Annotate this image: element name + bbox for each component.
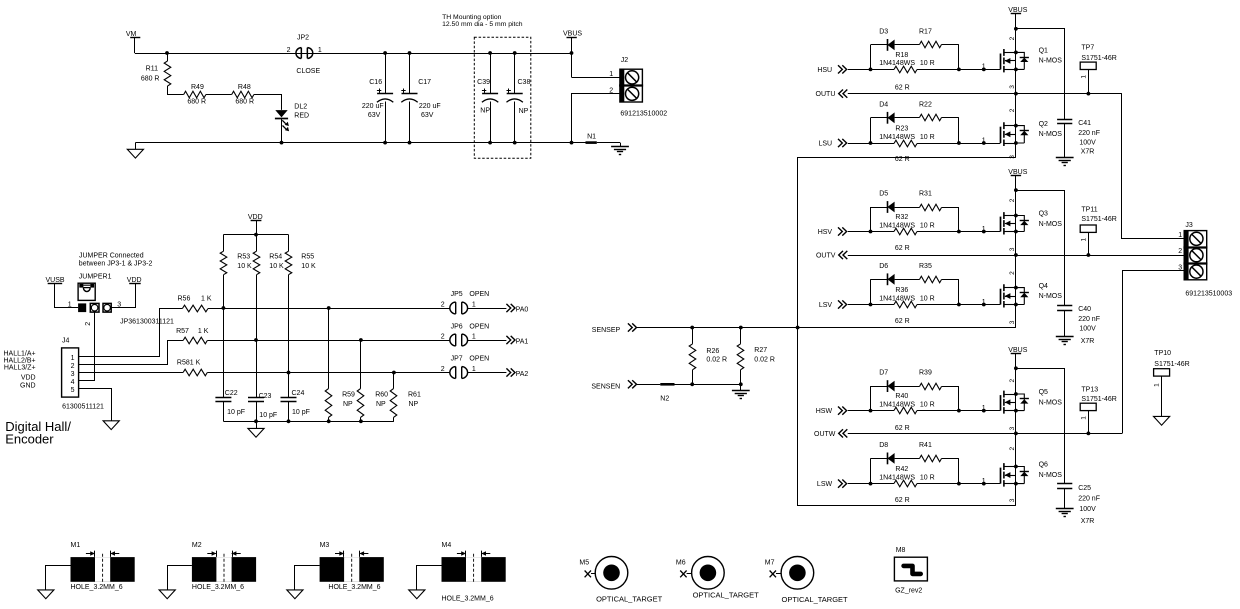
logo M8 glyph bbox=[904, 566, 921, 574]
svg-text:10 R: 10 R bbox=[920, 474, 935, 481]
sheet pin LSV chevron bbox=[838, 300, 847, 308]
svg-text:3: 3 bbox=[1009, 426, 1016, 430]
junction gate R36 bbox=[982, 303, 986, 307]
mounting hole M2 dimension arrows bbox=[207, 553, 216, 555]
svg-text:2: 2 bbox=[1009, 198, 1016, 202]
svg-text:JP6: JP6 bbox=[451, 324, 463, 331]
junction C39 top bbox=[488, 51, 492, 55]
junction gnd bus C23 bbox=[254, 419, 258, 423]
ground J4 bbox=[103, 421, 119, 430]
wire SENSEN row bbox=[637, 384, 661, 386]
svg-text:1: 1 bbox=[1081, 75, 1088, 79]
svg-text:10 R: 10 R bbox=[920, 60, 935, 67]
svg-text:R57: R57 bbox=[176, 328, 189, 335]
junction C16 top bbox=[383, 51, 387, 55]
svg-text:2: 2 bbox=[85, 322, 92, 326]
jumper JUMPER1 cap bbox=[78, 283, 95, 300]
svg-text:M1: M1 bbox=[71, 542, 81, 549]
resistor R31 bbox=[895, 207, 920, 209]
junction VBUS node W bbox=[1014, 366, 1018, 370]
junction D4 right bbox=[957, 141, 961, 145]
wire TP10 to ground bbox=[1161, 376, 1163, 416]
svg-text:VDD: VDD bbox=[248, 214, 263, 221]
svg-text:1: 1 bbox=[472, 301, 476, 308]
svg-text:Q4: Q4 bbox=[1039, 283, 1048, 290]
junction gnd bus R59 bbox=[327, 419, 331, 423]
transistor Q6 drain lead bbox=[1004, 466, 1016, 468]
svg-text:LSU: LSU bbox=[818, 140, 832, 147]
svg-text:10 R: 10 R bbox=[920, 134, 935, 141]
resistor R60 bbox=[360, 340, 362, 389]
svg-text:R56: R56 bbox=[178, 296, 191, 303]
capacitor C16 bbox=[385, 53, 387, 94]
svg-text:OUTU: OUTU bbox=[816, 91, 836, 98]
transistor Q1 source junction bbox=[1014, 68, 1018, 72]
wire TP7 to OUTU bbox=[1088, 70, 1090, 94]
wire branch left D4 bbox=[870, 118, 872, 143]
svg-text:R48: R48 bbox=[238, 84, 251, 91]
mounting hole M4 dimension arrows bbox=[457, 553, 466, 555]
svg-text:D3: D3 bbox=[879, 28, 888, 35]
junction PA0 R59 bbox=[327, 306, 331, 310]
svg-text:R31: R31 bbox=[919, 191, 932, 198]
svg-text:N1: N1 bbox=[587, 134, 596, 141]
ground M1 bbox=[38, 590, 54, 599]
resistor R57 bbox=[183, 337, 207, 344]
test point TP11 bbox=[1080, 225, 1096, 232]
transistor Q3 gate bar bbox=[1000, 217, 1002, 232]
wire VDD bus bbox=[223, 234, 288, 236]
resistor R56 bbox=[182, 305, 208, 312]
optical target M5 rings bbox=[595, 557, 628, 590]
resistor R17 bbox=[895, 44, 920, 46]
wire branch right D7 bbox=[958, 386, 960, 411]
wire branch right D6 bbox=[958, 279, 960, 304]
svg-text:TP11: TP11 bbox=[1081, 206, 1097, 213]
svg-text:R581 K: R581 K bbox=[177, 360, 201, 367]
junction DL2 bottom bbox=[280, 141, 284, 145]
svg-text:J3: J3 bbox=[1185, 222, 1193, 229]
ground C40 bbox=[1056, 336, 1074, 338]
wire branch right D4 bbox=[958, 118, 960, 143]
transistor Q1 channel bbox=[1003, 49, 1005, 72]
ground M3 bbox=[287, 590, 303, 599]
svg-text:D4: D4 bbox=[879, 101, 888, 108]
transistor Q1 source lead bbox=[1004, 69, 1016, 71]
svg-text:1N4148WS: 1N4148WS bbox=[879, 295, 915, 302]
svg-text:X7R: X7R bbox=[1081, 149, 1095, 156]
optical target M7 pin bbox=[770, 571, 776, 578]
svg-text:C39: C39 bbox=[477, 79, 490, 86]
svg-text:R59: R59 bbox=[342, 392, 355, 399]
junction D7 left bbox=[869, 409, 873, 413]
junction OUTV source bbox=[1014, 253, 1018, 257]
optical target M5 pin bbox=[585, 571, 591, 578]
resistor R40 bbox=[871, 410, 895, 412]
junction VBUS node U bbox=[1014, 27, 1018, 31]
transistor Q3 bulk arrow bbox=[1005, 223, 1016, 225]
svg-text:OPTICAL_TARGET: OPTICAL_TARGET bbox=[596, 595, 663, 604]
wire JUMPER1 pin2 to J4 pin4 bbox=[79, 312, 95, 380]
test point TP13 bbox=[1080, 403, 1096, 410]
svg-text:62 R: 62 R bbox=[895, 425, 910, 432]
junction OUTU testpoint bbox=[1087, 92, 1091, 96]
mounting hole M4 centerline bbox=[473, 554, 475, 584]
svg-text:2: 2 bbox=[1009, 447, 1016, 451]
transistor Q4 body diode bbox=[1016, 288, 1024, 305]
svg-text:3: 3 bbox=[1178, 265, 1182, 272]
transistor Q1 gate bar bbox=[1000, 54, 1002, 70]
svg-text:JUMPER Connected: JUMPER Connected bbox=[79, 253, 144, 260]
ground C25 bbox=[1056, 508, 1074, 510]
capacitor C17 bbox=[409, 53, 411, 94]
svg-text:VBUS: VBUS bbox=[563, 31, 582, 38]
wire D4 input bbox=[848, 143, 871, 145]
mounting hole M1 centerline bbox=[102, 554, 104, 584]
transistor Q5 source lead bbox=[1004, 410, 1016, 412]
svg-text:3: 3 bbox=[117, 302, 121, 309]
svg-text:NP: NP bbox=[519, 108, 529, 115]
svg-text:J4: J4 bbox=[62, 338, 70, 345]
ground filter bus bbox=[256, 421, 258, 428]
mounting hole M4 pad bbox=[442, 557, 506, 582]
svg-text:1N4148WS: 1N4148WS bbox=[879, 222, 915, 229]
svg-text:S1751-46R: S1751-46R bbox=[1081, 55, 1116, 62]
wire D5 input bbox=[848, 231, 871, 233]
transistor Q4 channel bbox=[1003, 284, 1005, 307]
transistor Q6 gate bar bbox=[1000, 468, 1002, 484]
transistor Q2 source junction bbox=[1014, 141, 1018, 145]
jumper JP5 bbox=[450, 302, 456, 314]
svg-text:OPEN: OPEN bbox=[469, 291, 489, 298]
svg-text:X7R: X7R bbox=[1081, 338, 1095, 345]
svg-text:1N4148WS: 1N4148WS bbox=[879, 401, 915, 408]
diode D5 bbox=[871, 207, 888, 209]
svg-text:TP10: TP10 bbox=[1154, 350, 1171, 357]
junction PA1 R60 bbox=[359, 338, 363, 342]
svg-text:HOLE_3.2MM_6: HOLE_3.2MM_6 bbox=[71, 584, 123, 591]
resistor R54 bbox=[256, 235, 258, 252]
svg-text:R55: R55 bbox=[301, 254, 314, 261]
svg-text:10 K: 10 K bbox=[301, 263, 316, 270]
mounting hole M3 wire bbox=[295, 566, 320, 590]
svg-text:C17: C17 bbox=[418, 79, 431, 86]
svg-text:N-MOS: N-MOS bbox=[1039, 293, 1063, 300]
wire J4 pin2 to PA1 row bbox=[79, 341, 184, 365]
svg-text:12.50 mm dia - 5 mm pitch: 12.50 mm dia - 5 mm pitch bbox=[442, 21, 523, 28]
svg-text:R36: R36 bbox=[895, 287, 908, 294]
junction gnd bus R60 bbox=[359, 419, 363, 423]
wire J2 pin1 bbox=[572, 77, 620, 79]
svg-text:LSV: LSV bbox=[819, 302, 833, 309]
transistor Q1 body diode bbox=[1016, 52, 1024, 69]
sheet pin LSU chevron bbox=[838, 139, 847, 147]
svg-text:1: 1 bbox=[71, 355, 75, 362]
jumper JP2 bbox=[296, 48, 301, 59]
resistor R23 bbox=[871, 143, 895, 145]
svg-text:NP: NP bbox=[480, 108, 490, 115]
svg-text:OPEN: OPEN bbox=[469, 356, 489, 363]
junction gate R18 bbox=[982, 68, 986, 72]
wire gnd bus bottom-left bbox=[135, 142, 585, 144]
svg-text:3: 3 bbox=[71, 371, 75, 378]
transistor Q6 source junction bbox=[1014, 482, 1018, 486]
svg-text:3: 3 bbox=[1009, 155, 1016, 159]
resistor R35 bbox=[895, 279, 920, 281]
jumper JUMPER1 pad 2 bbox=[90, 303, 99, 312]
wire PA0 row bbox=[208, 308, 450, 310]
wire TP13 to OUTW bbox=[1088, 411, 1090, 434]
svg-text:VDD: VDD bbox=[21, 374, 36, 381]
junction D8 left bbox=[869, 482, 873, 486]
svg-text:1: 1 bbox=[318, 47, 322, 54]
jumper JUMPER1 pad 3 bbox=[103, 303, 111, 312]
svg-text:10 K: 10 K bbox=[237, 263, 252, 270]
test point TP7 bbox=[1080, 62, 1096, 69]
ground M2 bbox=[159, 590, 175, 599]
junction C39 bottom bbox=[488, 141, 492, 145]
TH mounting dashed box bbox=[474, 37, 531, 158]
transistor Q1 drain lead bbox=[1004, 52, 1016, 54]
transistor Q5 source junction bbox=[1014, 409, 1018, 413]
svg-text:HOLE_3.2MM_6: HOLE_3.2MM_6 bbox=[328, 584, 380, 591]
svg-text:R53: R53 bbox=[237, 254, 250, 261]
mounting hole M3 centerline bbox=[351, 554, 353, 584]
svg-text:M7: M7 bbox=[765, 559, 775, 566]
svg-text:C38: C38 bbox=[518, 79, 531, 86]
wire VBUS column phase V bbox=[1015, 176, 1017, 328]
wire TP11 to OUTV bbox=[1088, 232, 1090, 255]
junction PA2 R55 bbox=[287, 371, 291, 375]
wire DL2 to gnd bus bbox=[281, 119, 283, 143]
svg-text:C16: C16 bbox=[369, 79, 382, 86]
svg-text:OPTICAL_TARGET: OPTICAL_TARGET bbox=[693, 590, 760, 599]
svg-text:1: 1 bbox=[1081, 238, 1088, 242]
wire OUTU row bbox=[848, 93, 1122, 95]
junction VBUS node bbox=[570, 51, 574, 55]
transistor Q2 bulk arrow bbox=[1005, 134, 1016, 136]
junction D5 left bbox=[869, 230, 873, 234]
svg-text:220 nF: 220 nF bbox=[1078, 316, 1100, 323]
svg-text:62 R: 62 R bbox=[895, 318, 910, 325]
svg-text:D5: D5 bbox=[879, 191, 888, 198]
svg-text:HALL3/Z+: HALL3/Z+ bbox=[4, 365, 36, 372]
mounting hole M4 wire bbox=[417, 566, 442, 590]
transistor Q1 bulk arrow bbox=[1005, 60, 1016, 62]
sheet pin HSV chevron bbox=[838, 227, 847, 235]
wire J4 pin3 to R58 bbox=[79, 372, 184, 374]
mounting hole M3 dimension arrows bbox=[335, 553, 344, 555]
svg-text:HSW: HSW bbox=[816, 408, 833, 415]
capacitor C39 bbox=[490, 53, 492, 94]
transistor Q3 source junction bbox=[1014, 230, 1018, 234]
resistor R36 bbox=[871, 304, 895, 306]
net tie N1 bbox=[586, 141, 597, 144]
ground C41 bbox=[1056, 157, 1074, 159]
wire VBUS to bypass cap C40 bbox=[1016, 191, 1065, 306]
svg-text:JP2: JP2 bbox=[297, 35, 309, 42]
wire VBUS column phase W bbox=[1015, 354, 1017, 506]
junction D6 left bbox=[869, 303, 873, 307]
junction C17 bottom bbox=[408, 141, 412, 145]
ground TP10 bbox=[1154, 416, 1170, 425]
svg-text:220 uF: 220 uF bbox=[419, 103, 441, 110]
transistor Q4 drain junction bbox=[1014, 286, 1018, 290]
junction C38 top bbox=[513, 51, 517, 55]
svg-text:R42: R42 bbox=[895, 466, 908, 473]
svg-text:5: 5 bbox=[71, 387, 75, 394]
svg-text:N-MOS: N-MOS bbox=[1039, 58, 1063, 65]
sheet pin PA0 bbox=[506, 304, 515, 312]
capacitor C23 bbox=[256, 340, 258, 398]
mounting hole M2 wire bbox=[168, 566, 192, 590]
jumper JP7 bbox=[450, 367, 456, 379]
mounting hole M1 wire bbox=[46, 566, 71, 590]
junction C16 bottom bbox=[383, 141, 387, 145]
svg-text:S1751-46R: S1751-46R bbox=[1081, 396, 1116, 403]
svg-text:3: 3 bbox=[1009, 247, 1016, 251]
svg-text:C24: C24 bbox=[292, 390, 305, 397]
svg-text:JUMPER1: JUMPER1 bbox=[79, 273, 112, 280]
transistor Q5 body diode bbox=[1016, 394, 1024, 411]
junction PA0 R53 bbox=[222, 306, 226, 310]
transistor Q4 gate bar bbox=[1000, 289, 1002, 305]
wire JP7 to PA2 bbox=[468, 372, 507, 374]
diode D8 bbox=[871, 458, 888, 460]
wire R48 to DL2 bbox=[254, 95, 282, 110]
svg-text:J2: J2 bbox=[621, 57, 629, 64]
wire D3 input bbox=[848, 69, 871, 71]
wire R11 to R49 bbox=[167, 94, 184, 96]
svg-text:OUTV: OUTV bbox=[816, 253, 836, 260]
svg-text:LSW: LSW bbox=[817, 481, 833, 488]
resistor R39 bbox=[895, 386, 920, 388]
resistor R42 bbox=[871, 483, 895, 485]
svg-text:C25: C25 bbox=[1078, 485, 1091, 492]
junction VDD bus bbox=[254, 233, 258, 237]
svg-text:TP13: TP13 bbox=[1081, 386, 1098, 393]
svg-text:62 R: 62 R bbox=[895, 497, 910, 504]
wire PA2 row bbox=[207, 372, 449, 374]
svg-text:1 K: 1 K bbox=[201, 295, 212, 302]
wire branch right D3 bbox=[958, 45, 960, 70]
junction J2 pin2 gnd bbox=[570, 141, 574, 145]
svg-text:C40: C40 bbox=[1078, 306, 1091, 313]
svg-text:10 pF: 10 pF bbox=[227, 409, 245, 416]
logo M8 box bbox=[894, 557, 927, 581]
svg-text:HOLE_3.2MM_6: HOLE_3.2MM_6 bbox=[192, 584, 244, 591]
svg-text:680 R: 680 R bbox=[141, 75, 160, 82]
svg-text:63V: 63V bbox=[368, 112, 381, 119]
svg-text:NP: NP bbox=[343, 401, 353, 408]
svg-text:63V: 63V bbox=[421, 112, 434, 119]
junction OUTW testpoint bbox=[1087, 432, 1091, 436]
svg-text:OUTW: OUTW bbox=[814, 431, 836, 438]
transistor Q2 source lead bbox=[1004, 143, 1016, 145]
svg-text:GZ_rev2: GZ_rev2 bbox=[895, 588, 922, 595]
wire branch left D6 bbox=[870, 279, 872, 304]
junction D3 right bbox=[957, 68, 961, 72]
transistor Q2 gate bar bbox=[1000, 127, 1002, 143]
junction gate R42 bbox=[982, 482, 986, 486]
resistor R48 bbox=[232, 91, 254, 98]
capacitor C22 bbox=[223, 308, 225, 398]
svg-text:1N4148WS: 1N4148WS bbox=[879, 60, 915, 67]
junction SENSEN R27 bbox=[739, 382, 743, 386]
transistor Q4 drain lead bbox=[1004, 287, 1016, 289]
svg-text:D8: D8 bbox=[879, 442, 888, 449]
svg-text:X7R: X7R bbox=[1081, 518, 1095, 525]
svg-text:R60: R60 bbox=[375, 392, 388, 399]
wire gate R23 bbox=[959, 143, 1001, 145]
svg-text:GND: GND bbox=[20, 382, 36, 389]
connector J3 bbox=[1184, 231, 1207, 280]
diode D4 bbox=[871, 117, 888, 119]
junction OUTU source bbox=[1014, 92, 1018, 96]
svg-text:C41: C41 bbox=[1078, 120, 1091, 127]
svg-text:2: 2 bbox=[441, 366, 445, 373]
svg-text:2: 2 bbox=[441, 301, 445, 308]
junction PA2 R61 bbox=[392, 371, 396, 375]
svg-text:R27: R27 bbox=[754, 347, 767, 354]
transistor Q5 channel bbox=[1003, 391, 1005, 414]
junction VBUS node V bbox=[1014, 188, 1018, 192]
mounting hole M1 dimension arrows bbox=[86, 553, 95, 555]
transistor Q5 bulk arrow bbox=[1005, 402, 1016, 404]
resistor R18 bbox=[871, 69, 895, 71]
wire JP5 to PA0 bbox=[468, 308, 507, 310]
transistor Q4 bulk arrow bbox=[1005, 296, 1016, 298]
resistor R59 bbox=[328, 308, 330, 389]
wire N2 to R27 bbox=[675, 384, 741, 386]
svg-text:1N4148WS: 1N4148WS bbox=[879, 134, 915, 141]
junction R11 top bbox=[165, 51, 169, 55]
net tie N2 bbox=[660, 383, 674, 386]
svg-text:61300511121: 61300511121 bbox=[62, 404, 104, 411]
svg-text:R39: R39 bbox=[919, 370, 932, 377]
transistor Q5 drain junction bbox=[1014, 392, 1018, 396]
svg-text:100V: 100V bbox=[1079, 326, 1096, 333]
wire D8 input bbox=[848, 483, 871, 485]
optical target M7 rings bbox=[781, 557, 814, 590]
resistor R27 bbox=[740, 328, 742, 344]
wire VUSB to pin1 bbox=[55, 284, 79, 308]
svg-text:M8: M8 bbox=[896, 547, 906, 554]
svg-text:2: 2 bbox=[1009, 379, 1016, 383]
svg-text:HSV: HSV bbox=[818, 229, 833, 236]
transistor Q2 drain junction bbox=[1014, 124, 1018, 128]
junction gate R32 bbox=[982, 230, 986, 234]
transistor Q1 drain junction bbox=[1014, 51, 1018, 55]
svg-text:Encoder: Encoder bbox=[5, 432, 54, 447]
svg-text:N-MOS: N-MOS bbox=[1039, 399, 1063, 406]
wire branch left D7 bbox=[870, 386, 872, 411]
transistor Q5 drain lead bbox=[1004, 394, 1016, 396]
svg-text:220 uF: 220 uF bbox=[362, 103, 384, 110]
svg-text:JP7: JP7 bbox=[451, 356, 463, 363]
svg-text:TH Mounting option: TH Mounting option bbox=[442, 14, 502, 21]
svg-text:Q6: Q6 bbox=[1039, 462, 1048, 469]
wire VM bus top bbox=[135, 53, 572, 55]
svg-text:R54: R54 bbox=[269, 254, 282, 261]
wire OUTW to J3 pin3 bbox=[1123, 271, 1185, 434]
diode D7 bbox=[871, 386, 888, 388]
junction gate R40 bbox=[982, 409, 986, 413]
connector J4 bbox=[62, 348, 79, 397]
wire OUTU to J3 pin1 bbox=[1122, 94, 1185, 239]
svg-text:100V: 100V bbox=[1079, 506, 1096, 513]
svg-text:Q3: Q3 bbox=[1039, 211, 1048, 218]
